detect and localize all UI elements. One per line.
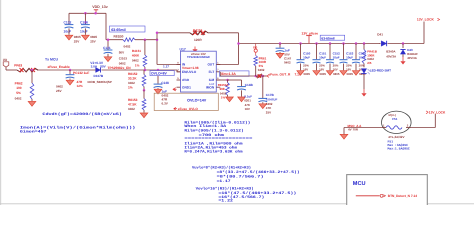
svg-text:eFuse_Enable: eFuse_Enable bbox=[48, 65, 70, 69]
capacitor C17B bbox=[262, 76, 264, 98]
svg-text:====================: ==================== bbox=[184, 138, 252, 142]
svg-text:C/103: C/103 bbox=[119, 56, 128, 60]
wire VDD down bbox=[105, 13, 107, 39]
wire IN bbox=[156, 40, 158, 65]
svg-text:DIOB_SBR3U(SP: DIOB_SBR3U(SP bbox=[88, 80, 112, 84]
svg-text:Max:1.5A@95C: Max:1.5A@95C bbox=[388, 147, 410, 151]
resistor R8153 bbox=[143, 90, 145, 98]
junction EN divider bbox=[144, 69, 147, 72]
resistor PR41B LED series bbox=[363, 42, 366, 45]
svg-text:10uF: 10uF bbox=[319, 55, 326, 59]
capacitor PC132 bbox=[69, 69, 72, 72]
junction at VDD tick bbox=[94, 12, 97, 15]
svg-text:5%: 5% bbox=[16, 91, 21, 95]
svg-text:0805: 0805 bbox=[333, 72, 340, 76]
svg-text:PR63: PR63 bbox=[14, 64, 22, 68]
svg-text:dVdt: dVdt bbox=[182, 78, 190, 82]
svg-text:MCU: MCU bbox=[353, 181, 366, 187]
svg-text:=1.22: =1.22 bbox=[218, 199, 233, 204]
wire 13V_pfuse rail bbox=[239, 43, 380, 45]
note Ilim box bbox=[220, 71, 250, 76]
svg-text:5: 5 bbox=[177, 77, 179, 80]
capacitor C150 bbox=[299, 42, 302, 45]
svg-text:OUT: OUT bbox=[207, 63, 214, 67]
wire LED down bbox=[363, 74, 365, 89]
svg-text:I/O: I/O bbox=[3, 58, 8, 62]
svg-text:1%: 1% bbox=[135, 63, 140, 67]
svg-text:10uF: 10uF bbox=[346, 55, 353, 59]
svg-text:40V/3A: 40V/3A bbox=[407, 56, 418, 60]
svg-text:eFuse_OUT_R: eFuse_OUT_R bbox=[269, 72, 291, 76]
svg-text:8: 8 bbox=[177, 61, 179, 64]
svg-text:0402: 0402 bbox=[128, 107, 135, 111]
svg-text:R=0.247A,Rilm=3.63K ohm: R=0.247A,Rilm=3.63K ohm bbox=[184, 149, 243, 154]
capacitor C147 bbox=[279, 42, 282, 45]
svg-text:10uF: 10uF bbox=[333, 55, 340, 59]
svg-text:0805: 0805 bbox=[347, 72, 354, 76]
junction at C128 top bbox=[84, 12, 87, 15]
note 63-65mil left bbox=[110, 26, 146, 32]
svg-text:0402: 0402 bbox=[124, 45, 131, 49]
svg-text:50V: 50V bbox=[119, 51, 125, 55]
resistor R8152 bbox=[143, 70, 145, 75]
svg-text:R4151: R4151 bbox=[132, 49, 141, 53]
capacitor C121 on rail bbox=[107, 40, 109, 50]
svg-text:400K: 400K bbox=[132, 53, 140, 57]
svg-text:6: 6 bbox=[217, 77, 219, 80]
diode D167B bbox=[96, 68, 101, 73]
svg-text:13V_LOCK: 13V_LOCK bbox=[417, 18, 435, 22]
svg-text:25V: 25V bbox=[266, 111, 271, 115]
wire FLT to lower bbox=[219, 72, 221, 76]
power arrow above U17 bbox=[194, 47, 196, 50]
svg-text:PR62: PR62 bbox=[15, 81, 23, 85]
svg-text:4TL,3A/32V: 4TL,3A/32V bbox=[388, 135, 404, 139]
junction D40 bbox=[402, 42, 405, 45]
wire to fuse bbox=[344, 127, 382, 129]
MCU block bbox=[347, 175, 428, 207]
wire EN main bbox=[38, 69, 96, 71]
svg-text:0402: 0402 bbox=[132, 58, 139, 62]
svg-text:LED-RED-SMT: LED-RED-SMT bbox=[370, 68, 391, 72]
svg-text:=8*(33.2+47.5/(466+33.2+47.5)): =8*(33.2+47.5/(466+33.2+47.5)) bbox=[217, 170, 300, 175]
svg-text:Tx MCU: Tx MCU bbox=[45, 57, 59, 61]
svg-text:F51: F51 bbox=[392, 117, 398, 121]
wire bridge to out bbox=[208, 32, 239, 34]
junction R2 R3 bbox=[143, 89, 146, 92]
svg-text:C128: C128 bbox=[80, 20, 88, 24]
resistor PR62 bbox=[31, 70, 33, 83]
svg-text:7: 7 bbox=[217, 69, 219, 72]
capacitor C151 bbox=[315, 42, 318, 45]
svg-text:10uF: 10uF bbox=[80, 30, 88, 34]
resistor PR61 bbox=[255, 52, 257, 55]
svg-text:0402: 0402 bbox=[284, 60, 291, 64]
note 63-65mil right bbox=[320, 35, 345, 40]
svg-text:12%: 12% bbox=[77, 84, 83, 88]
net eFuse_OUT_R bbox=[267, 75, 269, 78]
svg-text:63-65mil: 63-65mil bbox=[321, 36, 334, 40]
svg-text:0402: 0402 bbox=[56, 84, 63, 88]
svg-text:63-65mil: 63-65mil bbox=[111, 28, 125, 32]
svg-text:PC132 1uF: PC132 1uF bbox=[73, 71, 89, 75]
wire BTN_Detect bbox=[356, 195, 380, 197]
svg-text:D41: D41 bbox=[377, 32, 383, 36]
ground MSO bbox=[340, 134, 348, 139]
svg-text:D167B: D167B bbox=[94, 74, 104, 78]
svg-text:0402: 0402 bbox=[15, 97, 22, 101]
pin FLT bbox=[216, 71, 220, 73]
svg-text:1%: 1% bbox=[221, 96, 226, 100]
note OVLO=8V bbox=[150, 71, 174, 76]
pin dVdt bbox=[177, 79, 181, 81]
wire IN bridge rail bbox=[156, 38, 159, 41]
net 13V_LOCK right bbox=[426, 111, 428, 114]
pin ILM bbox=[216, 79, 220, 81]
svg-text:Vuvlo=8*(R2+R3)/(R1+R2+R3): Vuvlo=8*(R2+R3)/(R1+R2+R3) bbox=[192, 166, 251, 171]
svg-text:C17B: C17B bbox=[266, 93, 275, 97]
capacitor C154 bbox=[355, 42, 358, 45]
svg-text:0402: 0402 bbox=[119, 62, 126, 66]
svg-text:50V: 50V bbox=[100, 65, 106, 69]
svg-text:OVLO=8V: OVLO=8V bbox=[151, 72, 167, 76]
note OVLO=16V box bbox=[154, 93, 218, 110]
svg-text:4V 70R: 4V 70R bbox=[348, 128, 359, 132]
svg-text:1: 1 bbox=[383, 124, 385, 128]
page border bbox=[0, 0, 2, 205]
net 13V_LOCK top bbox=[423, 22, 425, 44]
svg-text:ILM: ILM bbox=[209, 78, 215, 82]
wire R81B0 to corner bbox=[135, 39, 157, 41]
wire to R81B0 bbox=[106, 39, 123, 41]
junction PR61 bottom bbox=[254, 75, 257, 78]
svg-text:25V: 25V bbox=[56, 89, 62, 93]
svg-text:1.17: 1.17 bbox=[209, 83, 215, 86]
svg-text:R8152: R8152 bbox=[128, 72, 138, 76]
capacitor C153 bbox=[342, 42, 345, 45]
svg-text:47R: 47R bbox=[77, 80, 83, 84]
svg-text:47.5K: 47.5K bbox=[128, 102, 137, 106]
pin EN/UVLO bbox=[177, 71, 181, 73]
svg-text:EN/UVLO: EN/UVLO bbox=[182, 70, 197, 74]
capacitor C132 bbox=[68, 13, 70, 24]
svg-text:6.3V: 6.3V bbox=[162, 101, 169, 105]
svg-text:0402: 0402 bbox=[258, 68, 265, 72]
LED D42 bbox=[361, 69, 366, 74]
svg-text:1: 1 bbox=[217, 61, 219, 64]
svg-text:Gimon=457: Gimon=457 bbox=[20, 129, 47, 134]
diode D40 bbox=[402, 44, 404, 49]
power arrow at GND1 bbox=[173, 88, 177, 91]
wire fuse to lock bbox=[411, 127, 435, 129]
wire VDD rail bbox=[69, 12, 106, 14]
svg-text:25V: 25V bbox=[90, 40, 96, 44]
capacitor C128 bbox=[84, 13, 86, 24]
svg-text:Vovlo=16*(R3)/(R1+R2+R3): Vovlo=16*(R3)/(R1+R2+R3) bbox=[196, 187, 254, 192]
pin OUT bbox=[216, 64, 220, 66]
junction PR62 bbox=[31, 69, 34, 72]
power arrow below LED bbox=[363, 89, 365, 93]
svg-text:eFuse_OVLO: eFuse_OVLO bbox=[178, 107, 199, 111]
svg-text:10uF: 10uF bbox=[64, 30, 72, 34]
svg-text:0805: 0805 bbox=[320, 72, 327, 76]
net eFuse_OVLO bbox=[174, 107, 177, 110]
svg-text:1.17: 1.17 bbox=[163, 64, 169, 68]
junction divider top bbox=[144, 38, 147, 41]
capacitor C14B bbox=[228, 79, 242, 81]
svg-text:VDD_13v: VDD_13v bbox=[92, 5, 108, 9]
resistor R8150A bbox=[227, 80, 229, 83]
svg-text:=8*(80.7/566.7): =8*(80.7/566.7) bbox=[217, 175, 264, 180]
svg-text:C121: C121 bbox=[103, 46, 111, 50]
svg-text:2: 2 bbox=[407, 124, 409, 128]
svg-text:=1.17: =1.17 bbox=[217, 179, 231, 184]
wire from connector bbox=[5, 67, 7, 70]
svg-text:40V/3A: 40V/3A bbox=[386, 55, 397, 59]
svg-text:13V_LOCK: 13V_LOCK bbox=[429, 110, 446, 114]
junction rail left bbox=[237, 42, 240, 45]
svg-text:2/5: 2/5 bbox=[367, 61, 372, 65]
svg-text:BTN_Detect_N 7.14: BTN_Detect_N 7.14 bbox=[388, 194, 417, 198]
svg-text:When Ilim=1.3A: When Ilim=1.3A bbox=[184, 124, 227, 129]
svg-text:R8153: R8153 bbox=[128, 98, 138, 102]
resistor DNI out bbox=[256, 74, 262, 78]
svg-text:OVLO=14V: OVLO=14V bbox=[187, 99, 207, 103]
wire OUT bbox=[216, 64, 238, 66]
svg-text:0805: 0805 bbox=[304, 72, 311, 76]
svg-text:C132: C132 bbox=[64, 20, 72, 24]
svg-text:FLT: FLT bbox=[209, 70, 215, 74]
svg-text:0402: 0402 bbox=[128, 81, 135, 85]
svg-text:1%: 1% bbox=[128, 85, 133, 89]
svg-text:B340A: B340A bbox=[386, 49, 396, 53]
svg-text:0805: 0805 bbox=[74, 35, 81, 39]
svg-text:120R: 120R bbox=[194, 38, 202, 42]
svg-text:25V: 25V bbox=[74, 40, 80, 44]
fuse F51 bbox=[382, 111, 412, 133]
svg-text:Cdvdt(gF)=42000/(SR(mV/uS): Cdvdt(gF)=42000/(SR(mV/uS) bbox=[42, 112, 122, 117]
capacitor C148 bbox=[157, 69, 160, 72]
resistor R465 bbox=[144, 40, 146, 55]
pin IMON bbox=[216, 86, 220, 88]
svg-text:13V_pfuse: 13V_pfuse bbox=[302, 32, 319, 36]
wire ILM bbox=[216, 79, 227, 81]
pin IN bbox=[177, 64, 181, 66]
wire EN to IC bbox=[102, 69, 178, 71]
svg-text:TPS25982ONRGR: TPS25982ONRGR bbox=[187, 56, 210, 59]
svg-text:0805: 0805 bbox=[90, 35, 97, 39]
svg-text:C14B: C14B bbox=[245, 83, 254, 87]
svg-text:10uF: 10uF bbox=[303, 55, 310, 59]
svg-text:2: 2 bbox=[177, 69, 179, 72]
svg-text:R81B0: R81B0 bbox=[114, 34, 124, 38]
svg-text:Rilm=(905/(1.3-0.0112): Rilm=(905/(1.3-0.0112) bbox=[184, 129, 243, 134]
junction Rilm bbox=[226, 79, 229, 82]
capacitor C152 bbox=[329, 42, 332, 45]
svg-text:33.2K: 33.2K bbox=[128, 77, 137, 81]
junction C17B top bbox=[262, 75, 265, 78]
svg-text:100: 100 bbox=[16, 86, 22, 90]
svg-text:GND1: GND1 bbox=[182, 85, 191, 89]
svg-text:16V: 16V bbox=[245, 107, 250, 111]
